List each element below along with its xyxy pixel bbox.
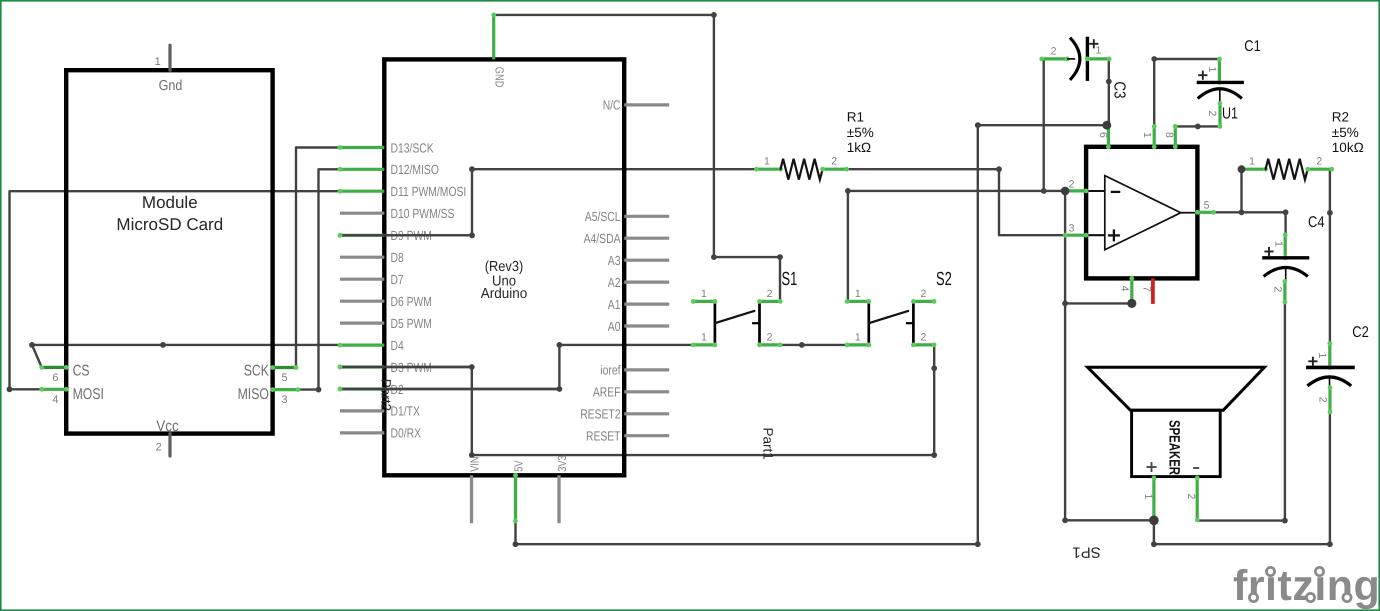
svg-text:D8: D8: [391, 250, 404, 265]
svg-text:1: 1: [1142, 494, 1154, 500]
svg-text:Gnd: Gnd: [159, 78, 183, 94]
svg-text:U1: U1: [1222, 105, 1238, 122]
svg-text:2: 2: [767, 332, 773, 344]
svg-text:SP1: SP1: [1072, 544, 1100, 561]
svg-text:Arduino: Arduino: [481, 286, 528, 302]
svg-text:A2: A2: [608, 275, 621, 290]
svg-text:3: 3: [282, 394, 288, 406]
svg-text:1: 1: [701, 332, 707, 344]
svg-text:1: 1: [155, 56, 161, 68]
svg-text:3V3: 3V3: [555, 455, 569, 472]
svg-text:1: 1: [1095, 45, 1101, 57]
svg-text:S1: S1: [782, 269, 798, 290]
svg-text:SPEAKER: SPEAKER: [1165, 420, 1182, 475]
svg-text:5: 5: [1204, 200, 1210, 212]
svg-text:2: 2: [156, 441, 162, 453]
svg-text:1: 1: [1206, 67, 1218, 73]
svg-text:1: 1: [764, 156, 770, 168]
svg-text:1: 1: [701, 288, 707, 300]
svg-text:GND: GND: [493, 67, 507, 88]
svg-text:D13/SCK: D13/SCK: [391, 140, 434, 155]
svg-text:10kΩ: 10kΩ: [1332, 140, 1364, 155]
svg-text:2: 2: [1316, 156, 1322, 168]
svg-text:Module: Module: [142, 193, 198, 212]
svg-text:A4/SDA: A4/SDA: [584, 231, 621, 246]
svg-text:7: 7: [1141, 286, 1153, 292]
svg-text:D6 PWM: D6 PWM: [391, 294, 432, 309]
svg-text:A0: A0: [608, 319, 621, 334]
svg-text:±5%: ±5%: [847, 125, 874, 140]
svg-text:1: 1: [1249, 156, 1255, 168]
svg-text:2: 2: [831, 156, 837, 168]
svg-text:C3: C3: [1111, 82, 1128, 99]
svg-text:4: 4: [52, 394, 58, 406]
svg-text:MicroSD Card: MicroSD Card: [116, 215, 223, 234]
svg-text:Vcc: Vcc: [156, 418, 179, 435]
svg-text:5V: 5V: [511, 460, 525, 471]
svg-text:2: 2: [920, 288, 926, 300]
svg-text:SCK: SCK: [244, 362, 270, 379]
svg-text:6: 6: [52, 372, 58, 384]
svg-text:1kΩ: 1kΩ: [847, 140, 871, 155]
svg-text:R1: R1: [847, 109, 864, 124]
svg-text:2: 2: [1051, 46, 1057, 58]
svg-text:CS: CS: [73, 362, 90, 379]
svg-text:RESET2: RESET2: [580, 407, 620, 422]
svg-text:2: 2: [1206, 111, 1218, 117]
svg-text:1: 1: [1316, 353, 1328, 359]
svg-text:3: 3: [1069, 223, 1075, 235]
svg-text:A5/SCL: A5/SCL: [585, 209, 621, 224]
svg-text:1: 1: [855, 288, 861, 300]
svg-text:D0/RX: D0/RX: [391, 426, 422, 441]
svg-text:MOSI: MOSI: [73, 386, 104, 403]
svg-text:C1: C1: [1244, 38, 1261, 55]
svg-text:D11 PWM/MOSI: D11 PWM/MOSI: [391, 184, 467, 199]
svg-text:D4: D4: [391, 338, 404, 353]
svg-text:A1: A1: [608, 297, 621, 312]
svg-text:C4: C4: [1308, 214, 1325, 231]
svg-text:2: 2: [1271, 286, 1283, 292]
svg-text:MISO: MISO: [238, 386, 269, 403]
svg-text:Part2: Part2: [379, 379, 394, 411]
svg-text:S2: S2: [936, 269, 952, 290]
svg-text:(Rev3): (Rev3): [485, 259, 524, 275]
svg-text:1: 1: [855, 332, 861, 344]
svg-text:6: 6: [1097, 132, 1109, 138]
svg-text:8: 8: [1163, 132, 1175, 138]
svg-text:D7: D7: [391, 272, 404, 287]
svg-text:RESET: RESET: [586, 429, 621, 444]
svg-text:1: 1: [1141, 132, 1153, 138]
svg-text:VIN: VIN: [467, 456, 481, 471]
svg-text:2: 2: [1069, 179, 1075, 191]
svg-text:D12/MISO: D12/MISO: [391, 162, 439, 177]
svg-text:D5 PWM: D5 PWM: [391, 316, 432, 331]
svg-text:fritzing: fritzing: [1233, 562, 1380, 610]
svg-text:5: 5: [282, 372, 288, 384]
svg-text:R2: R2: [1332, 109, 1349, 124]
svg-text:1: 1: [1272, 241, 1284, 247]
svg-text:2: 2: [767, 288, 773, 300]
svg-text:D1/TX: D1/TX: [391, 404, 421, 419]
svg-text:A3: A3: [608, 253, 621, 268]
svg-text:±5%: ±5%: [1332, 125, 1359, 140]
svg-text:4: 4: [1118, 286, 1130, 292]
svg-text:2: 2: [1185, 494, 1197, 500]
svg-text:AREF: AREF: [593, 385, 621, 400]
svg-text:2: 2: [920, 332, 926, 344]
svg-text:C2: C2: [1352, 324, 1369, 341]
svg-text:ioref: ioref: [600, 363, 620, 378]
svg-text:Part1: Part1: [761, 428, 776, 460]
svg-text:N/C: N/C: [603, 98, 621, 113]
svg-text:2: 2: [1317, 397, 1329, 403]
svg-text:D10 PWM/SS: D10 PWM/SS: [391, 206, 455, 221]
